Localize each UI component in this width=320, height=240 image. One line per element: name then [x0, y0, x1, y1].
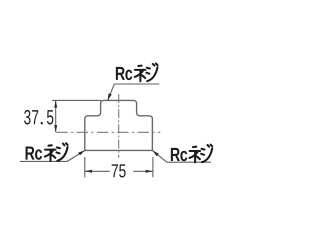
dimension 75 text: [112, 164, 126, 177]
right label text Rc: [171, 148, 187, 161]
dimension 75 line: [85, 170, 153, 172]
dimension 37.5 line: [55, 100, 57, 132]
horizontal centerline: [56, 131, 160, 133]
dimension 75 extension line right: [152, 157, 154, 177]
top label leader shelf: [108, 84, 159, 100]
dimension 37.5 arrow down: [54, 125, 57, 132]
top label leader arrow: [108, 93, 112, 100]
left label leader shelf: [20, 150, 85, 161]
top label katakana ji: [146, 64, 157, 82]
right label leader shelf: [153, 151, 212, 163]
right label katakana ji: [201, 145, 212, 163]
left label leader arrow: [78, 150, 85, 155]
dimension 37.5 extension line: [52, 99, 101, 101]
right label katakana ne: [190, 147, 201, 163]
right label leader arrow: [153, 151, 159, 157]
dimension 75 arrow right: [146, 170, 153, 173]
dimension 75 extension line left: [84, 157, 86, 177]
top label katakana ne: [135, 66, 146, 82]
dimension 75 arrow left: [85, 170, 92, 173]
left label katakana ne: [45, 145, 56, 161]
vertical centerline: [118, 94, 120, 158]
top label text Rc: [116, 67, 132, 80]
left label katakana ji: [57, 143, 68, 161]
dimension 37.5 text: [24, 110, 53, 125]
left label text Rc: [26, 147, 42, 160]
tee fitting body outline: [85, 100, 153, 150]
dimension 37.5 arrow up: [54, 100, 57, 107]
